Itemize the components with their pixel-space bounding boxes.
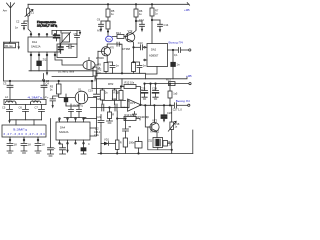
- diode VD1: [101, 143, 104, 145]
- svg-text:10,2МГц: 10,2МГц: [73, 104, 84, 108]
- caps under G1: [69, 104, 74, 118]
- svg-text:С3: С3: [3, 81, 7, 85]
- cap under output: [172, 50, 174, 62]
- bus end tick: [187, 3, 189, 6]
- svg-text:DA4: DA4: [60, 125, 66, 129]
- svg-text:КТ368: КТ368: [123, 47, 131, 51]
- cap left top: [7, 81, 13, 99]
- svg-text:С24: С24: [152, 86, 157, 90]
- svg-text:С20: С20: [96, 97, 101, 101]
- rail under DA1: [29, 70, 96, 72]
- transistor VT3: [150, 122, 159, 131]
- svg-text:R12 10к: R12 10к: [125, 81, 135, 85]
- ground arrow pin2: [67, 144, 69, 150]
- DA4 bottom pins: [60, 140, 84, 144]
- emitter bypass cap C13 to DA2: [134, 46, 140, 48]
- gate from filter: [97, 51, 99, 65]
- svg-text:С21: С21: [112, 97, 117, 101]
- svg-text:SA612A: SA612A: [59, 130, 69, 134]
- svg-text:ZQ: ZQ: [148, 139, 152, 143]
- cap C14 with ground: [158, 20, 163, 30]
- DA2 AD8307 box: [147, 44, 168, 67]
- svg-text:R13 10к: R13 10к: [125, 113, 135, 117]
- svg-text:VT2: VT2: [128, 29, 133, 33]
- cap right top: [41, 81, 47, 99]
- top power bus +9V: [28, 3, 189, 5]
- capacitor C9 with ground: [99, 21, 104, 29]
- bottom rail: [98, 152, 193, 154]
- capacitor C2 with ground arrow: [24, 21, 28, 23]
- emitter resistor R10: [132, 63, 136, 72]
- resistor R1: [4, 43, 16, 48]
- svg-text:С5: С5: [74, 32, 78, 36]
- svg-text:С22: С22: [97, 115, 102, 119]
- svg-text:-: -: [128, 107, 129, 110]
- svg-text:100к: 100к: [129, 141, 135, 145]
- resistor R17 vertical: [168, 91, 172, 98]
- trimmer resistor R18: [170, 105, 172, 122]
- R5 resistor from bus: [107, 4, 109, 9]
- svg-text:КТ3102: КТ3102: [150, 130, 159, 134]
- svg-text:ПЧ: ПЧ: [107, 38, 111, 42]
- transistor VT2: [126, 33, 135, 42]
- svg-text:R: R: [112, 112, 114, 116]
- svg-text:КР140УД6: КР140УД6: [137, 115, 150, 119]
- svg-text:ОУ1: ОУ1: [130, 101, 136, 105]
- svg-text:R14: R14: [116, 31, 121, 35]
- cap C16 with ground: [50, 99, 56, 105]
- wire to op-amp: [128, 101, 129, 108]
- svg-text:R1 1м: R1 1м: [5, 44, 12, 48]
- stubs into filter box: [16, 120, 34, 125]
- op-amp DA3: [128, 99, 141, 111]
- DA2 output: [168, 49, 178, 51]
- transistor VT1 KP303: [101, 47, 110, 56]
- svg-text:AD8307: AD8307: [149, 54, 159, 58]
- DA2 bottom pin to rail: [146, 67, 158, 79]
- shield box with C6 C7: [57, 44, 77, 58]
- svg-text:С7: С7: [35, 105, 39, 109]
- svg-text:4,7мк: 4,7мк: [6, 99, 13, 103]
- R6 resistor from bus: [135, 4, 137, 9]
- svg-text:3,47-3,63 3,47-3,63: 3,47-3,63 3,47-3,63: [3, 132, 45, 136]
- wires DA1 bottom pins down: [31, 56, 62, 71]
- svg-text:ФП2: ФП2: [108, 82, 114, 86]
- svg-text:ZQ1: ZQ1: [43, 57, 49, 61]
- svg-text:DA2: DA2: [151, 47, 157, 51]
- polarized cap: [64, 98, 68, 102]
- ground arrow right of R1: [18, 42, 20, 47]
- svg-text:С: С: [88, 142, 90, 146]
- T grounds: [7, 151, 13, 153]
- vertical wire: [100, 126, 102, 144]
- resistor R2 vertical: [93, 67, 97, 76]
- wire bus to DA2 via R7: [151, 4, 153, 8]
- three caps under filter: [7, 141, 13, 151]
- trimmer cap box: [62, 33, 70, 42]
- inductor L1: [26, 8, 29, 16]
- resistor to ground between caps: [108, 112, 112, 119]
- svg-text:КП303: КП303: [96, 56, 104, 60]
- input resistor: [119, 91, 123, 101]
- crystal ZQ1 under DA1: [38, 56, 40, 61]
- svg-text:DA1: DA1: [32, 40, 38, 44]
- input line to R1: [4, 41, 19, 43]
- svg-text:R15: R15: [166, 78, 171, 82]
- ground line under caps: [10, 119, 42, 121]
- DA4 box: [56, 122, 90, 140]
- DA4 top pins: [60, 119, 84, 122]
- capacitor C4 polarized: [54, 35, 60, 38]
- svg-text:1к5: 1к5: [173, 92, 178, 96]
- crystal bottom wiring: [148, 127, 172, 150]
- DA1 box: [28, 37, 60, 52]
- +9V distribution line right: [145, 83, 189, 85]
- svg-text:C2: C2: [16, 19, 20, 23]
- svg-text:470: 470: [110, 46, 115, 50]
- svg-text:С19: С19: [88, 89, 93, 93]
- cap bottom A: [60, 144, 66, 154]
- IF input label box blue: [106, 36, 113, 42]
- svg-text:С23: С23: [141, 86, 146, 90]
- svg-text:G1: G1: [78, 88, 82, 92]
- audio out line: [141, 104, 174, 106]
- resistors above coupling caps: [92, 88, 120, 90]
- svg-text:С8: С8: [46, 79, 50, 83]
- svg-text:4,7мк: 4,7мк: [32, 99, 39, 103]
- three caps bottom: [7, 105, 13, 120]
- source resistor R9: [104, 63, 108, 72]
- svg-text:С5: С5: [2, 105, 6, 109]
- resistor R19: [163, 141, 168, 147]
- svg-text:АП: АП: [97, 29, 101, 33]
- wire line above DA1 right with arrow end: [52, 31, 80, 33]
- ground under op-amp: [133, 112, 137, 117]
- capacitor C12 with ground: [140, 21, 145, 29]
- DA1 top pins: [31, 35, 55, 38]
- stub capacitor C8: [43, 74, 45, 80]
- svg-text:С26: С26: [167, 111, 172, 115]
- vertical right of G1: [96, 79, 98, 94]
- svg-text:10,7±0,7 МГц: 10,7±0,7 МГц: [37, 24, 57, 28]
- tank row: [4, 99, 46, 101]
- svg-text:+9В: +9В: [184, 8, 190, 12]
- left cap from pin1: [48, 119, 54, 156]
- svg-text:C9: C9: [97, 18, 101, 22]
- svg-text:4,3МГц: 4,3МГц: [28, 95, 43, 99]
- resistor R14: [117, 35, 124, 39]
- oscillator G1: [75, 91, 88, 104]
- cap C22: [98, 115, 104, 127]
- cap C26 polarized with ground: [163, 105, 165, 114]
- drain cap 470p: [117, 42, 122, 73]
- resistor Ra: [116, 140, 120, 150]
- source cap: [110, 62, 115, 73]
- svg-text:10,7МГц ПКФ: 10,7МГц ПКФ: [58, 70, 74, 74]
- filter box bottom pins: [10, 137, 38, 141]
- crystal ZQ2: [153, 138, 163, 148]
- EMF filter box: [2, 125, 46, 137]
- svg-text:С27 1,0: С27 1,0: [173, 108, 183, 112]
- svg-text:2,2: 2,2: [95, 126, 99, 130]
- svg-text:С13: С13: [138, 41, 143, 45]
- svg-text:0,1: 0,1: [174, 53, 178, 57]
- mid rails: [96, 72, 146, 74]
- feedback resistor top: [124, 85, 136, 89]
- svg-text:С6: С6: [19, 105, 23, 109]
- svg-text:9,3МГц: 9,3МГц: [13, 128, 27, 132]
- capacitor C5: [75, 36, 80, 38]
- piezo filter: [62, 60, 83, 65]
- DA1 bottom pins: [31, 52, 55, 56]
- labels group: [2, 8, 192, 150]
- svg-text:C12: C12: [139, 18, 144, 22]
- cap bottom B polarized: [83, 144, 85, 148]
- svg-text:+9В: +9В: [186, 74, 192, 78]
- ground arrow on rail: [46, 71, 48, 73]
- svg-text:R: R: [120, 141, 122, 145]
- wire L1 to bus: [27, 4, 29, 8]
- feedback resistor bottom: [124, 117, 136, 121]
- coupling caps row: [91, 107, 130, 109]
- box right: [135, 142, 142, 149]
- svg-text:SA612A: SA612A: [31, 45, 41, 49]
- svg-text:Выход ЗЧ: Выход ЗЧ: [176, 99, 190, 103]
- svg-text:C14: C14: [164, 23, 169, 27]
- DA2 left pins: [145, 47, 147, 60]
- wire left vertical to mid rail: [3, 42, 5, 81]
- svg-text:Выход ПЧ: Выход ПЧ: [169, 41, 183, 45]
- choke below R5: [106, 21, 110, 29]
- wire L1 down to DA1 pin1: [28, 16, 31, 35]
- chain x=125.5 : cap + resistor: [125, 119, 127, 129]
- caps C23 C24 right of rail: [144, 84, 146, 91]
- antenna: [7, 3, 15, 43]
- svg-text:VD1: VD1: [104, 137, 110, 141]
- svg-text:VT3: VT3: [152, 118, 157, 122]
- R3 resistor from rail: [57, 84, 62, 94]
